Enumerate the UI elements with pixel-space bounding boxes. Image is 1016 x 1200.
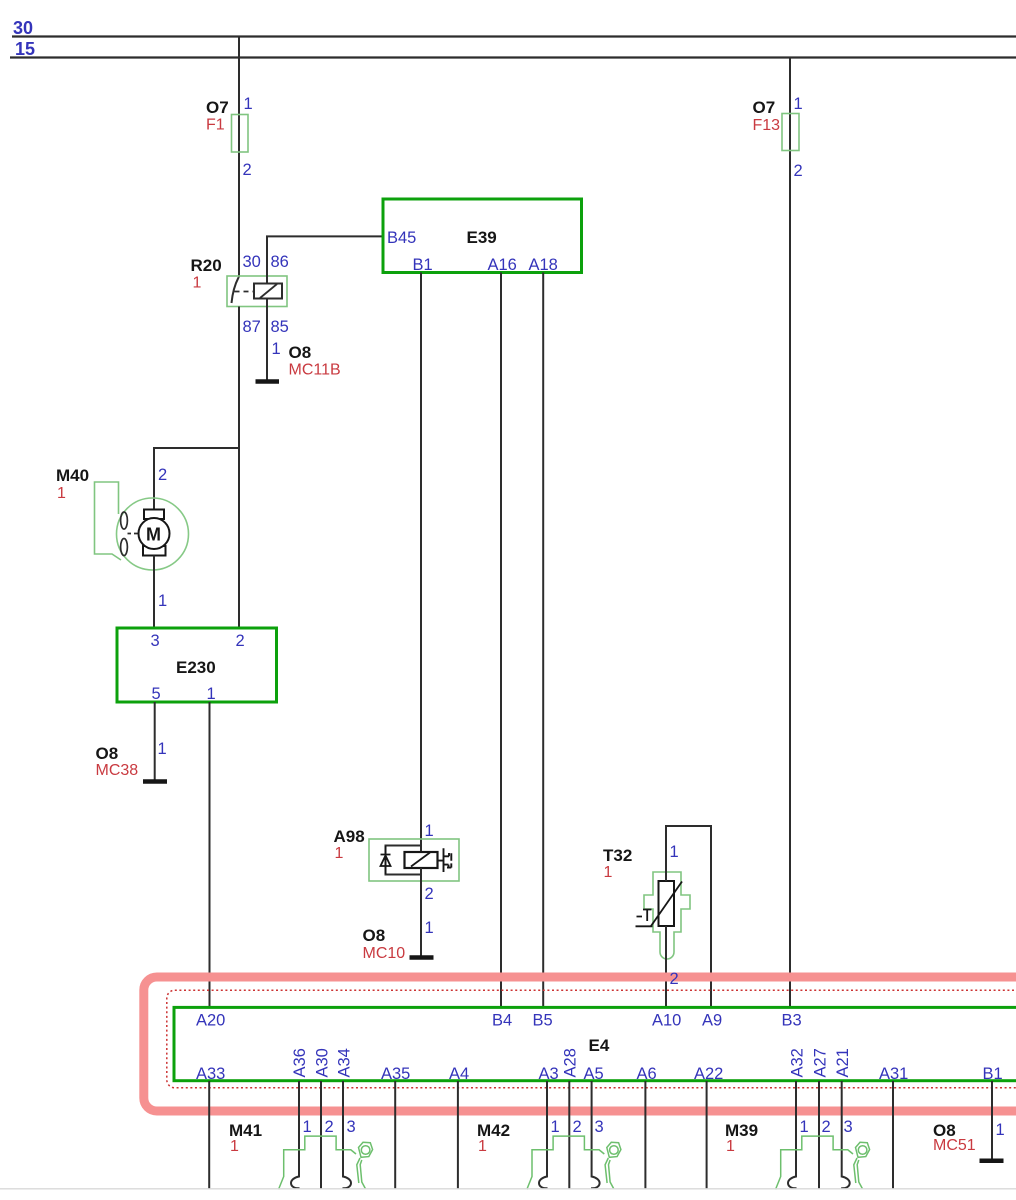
wire E4 A32 to M39 pin 1 bbox=[788, 1081, 797, 1188]
svg-text:O8: O8 bbox=[363, 926, 386, 945]
wire E4 A3 to M42 pin 1 bbox=[539, 1081, 548, 1188]
bus wire 15 bbox=[10, 56, 1016, 58]
ground O8 MC51 bbox=[933, 1121, 1004, 1161]
svg-text:2: 2 bbox=[822, 1118, 831, 1136]
relay R20 coil bbox=[254, 284, 282, 299]
svg-text:A10: A10 bbox=[652, 1012, 681, 1030]
temperature sensor T32 bbox=[603, 846, 690, 959]
svg-text:A22: A22 bbox=[694, 1065, 723, 1083]
svg-text:2: 2 bbox=[325, 1118, 334, 1136]
svg-text:3: 3 bbox=[151, 632, 160, 650]
svg-text:MC51: MC51 bbox=[933, 1137, 976, 1154]
svg-text:1: 1 bbox=[726, 1138, 735, 1155]
wire E4 A28 to M42 pin 2 bbox=[568, 1081, 570, 1190]
svg-text:A4: A4 bbox=[449, 1065, 469, 1083]
svg-text:2: 2 bbox=[425, 885, 434, 903]
svg-text:1: 1 bbox=[478, 1138, 487, 1155]
svg-text:E4: E4 bbox=[589, 1036, 610, 1055]
wire bus15 to fuse F13 and E4 B3 bbox=[789, 58, 791, 1008]
svg-text:1: 1 bbox=[335, 845, 344, 862]
svg-text:1: 1 bbox=[551, 1118, 560, 1136]
svg-text:B1: B1 bbox=[413, 256, 433, 274]
svg-text:M40: M40 bbox=[56, 466, 89, 485]
svg-text:1: 1 bbox=[996, 1121, 1005, 1139]
svg-text:85: 85 bbox=[271, 318, 289, 336]
svg-text:1: 1 bbox=[57, 485, 66, 502]
M40 housing circle bbox=[117, 498, 189, 570]
svg-text:O8: O8 bbox=[289, 343, 312, 362]
wire E4 A31 down bbox=[892, 1081, 894, 1189]
svg-text:MC10: MC10 bbox=[363, 945, 406, 962]
A98 green boundary bbox=[369, 839, 459, 881]
svg-text:30: 30 bbox=[13, 18, 33, 38]
ground O8 MC10 bbox=[363, 926, 434, 962]
svg-text:2: 2 bbox=[794, 162, 803, 180]
svg-text:A28: A28 bbox=[562, 1048, 580, 1077]
svg-text:1: 1 bbox=[794, 95, 803, 113]
svg-text:1: 1 bbox=[272, 340, 281, 358]
wire E230 pin 5 to ground MC38 bbox=[154, 702, 156, 781]
svg-text:O7: O7 bbox=[206, 98, 229, 117]
svg-text:3: 3 bbox=[844, 1118, 853, 1136]
svg-text:1: 1 bbox=[207, 685, 216, 703]
wire R20 pin 86 to E39 B45 bbox=[267, 236, 383, 283]
T32 thermistor diagonal bbox=[651, 882, 682, 927]
control unit E230 bbox=[117, 628, 277, 702]
svg-text:A9: A9 bbox=[702, 1012, 722, 1030]
wire E4 A22 down bbox=[706, 1081, 708, 1189]
relay R20 switch blade bbox=[232, 278, 239, 304]
svg-text:T32: T32 bbox=[603, 846, 632, 865]
svg-text:A98: A98 bbox=[334, 827, 365, 846]
svg-text:2: 2 bbox=[236, 632, 245, 650]
svg-text:A20: A20 bbox=[196, 1012, 225, 1030]
control unit E39 bbox=[383, 199, 582, 273]
svg-text:B4: B4 bbox=[492, 1012, 512, 1030]
svg-text:1: 1 bbox=[193, 275, 202, 292]
ground O8 MC11B bbox=[256, 343, 341, 382]
svg-text:1: 1 bbox=[425, 919, 434, 937]
svg-text:A27: A27 bbox=[811, 1048, 829, 1077]
svg-text:A21: A21 bbox=[834, 1048, 852, 1077]
svg-text:1: 1 bbox=[158, 740, 167, 758]
M40 green boundary bbox=[95, 482, 122, 560]
svg-text:3: 3 bbox=[595, 1118, 604, 1136]
svg-text:1: 1 bbox=[303, 1118, 312, 1136]
M40 brush top bbox=[144, 510, 164, 520]
valve unit A98 bbox=[334, 827, 460, 881]
svg-text:MC11B: MC11B bbox=[289, 362, 341, 379]
svg-text:30: 30 bbox=[243, 253, 261, 271]
wire junction motor M40 pin 2 branch bbox=[154, 448, 239, 510]
M40 fan blades bbox=[121, 512, 128, 529]
svg-text:F1: F1 bbox=[206, 117, 225, 134]
separator line bottom bbox=[0, 1188, 1016, 1190]
wire E39 B1 to A98 pin 1 bbox=[420, 273, 422, 853]
wire E39 A18 to E4 B5 bbox=[542, 273, 544, 1008]
wire E4 A35 down bbox=[394, 1081, 396, 1189]
svg-text:A5: A5 bbox=[584, 1065, 604, 1083]
svg-text:2: 2 bbox=[243, 161, 252, 179]
fuse O7 F13 bbox=[753, 98, 800, 151]
svg-text:A6: A6 bbox=[637, 1065, 657, 1083]
T32 thermistor body bbox=[659, 881, 675, 926]
T32 -t marking bbox=[636, 910, 653, 927]
A98 coil bbox=[405, 852, 438, 868]
wire T32 pin 2 to E4 A10 bbox=[665, 926, 667, 1007]
wire E230 pin 1 to E4 A20 bbox=[209, 702, 211, 1007]
svg-text:1: 1 bbox=[425, 822, 434, 840]
wire R20 pin 85 to ground MC11B bbox=[266, 299, 268, 381]
svg-text:A30: A30 bbox=[313, 1048, 331, 1077]
A98 inner loop wire bbox=[386, 846, 422, 875]
wire E4 B1 to ground MC51 bbox=[991, 1081, 993, 1159]
svg-text:1: 1 bbox=[244, 95, 253, 113]
wire T32 pin 1 to E4 A9 bbox=[666, 826, 711, 1007]
M42 nozzle bbox=[607, 1142, 621, 1157]
svg-text:A31: A31 bbox=[879, 1065, 908, 1083]
svg-text:A36: A36 bbox=[291, 1048, 309, 1077]
wire E4 A5 to M42 pin 3 bbox=[591, 1081, 600, 1188]
svg-text:A33: A33 bbox=[196, 1065, 225, 1083]
wire E4 A36 to M41 pin 1 bbox=[291, 1081, 300, 1188]
wire E4 A34 to M41 pin 3 bbox=[342, 1081, 351, 1188]
svg-text:E230: E230 bbox=[176, 658, 216, 677]
M42 spray arm bbox=[605, 1158, 614, 1189]
svg-text:A32: A32 bbox=[788, 1048, 806, 1077]
wire E4 A4 down bbox=[457, 1081, 459, 1189]
svg-text:M: M bbox=[146, 525, 161, 545]
A98 actuator contact symbol bbox=[438, 848, 452, 872]
svg-text:1: 1 bbox=[230, 1138, 239, 1155]
svg-text:A3: A3 bbox=[539, 1065, 559, 1083]
harness dotted boundary bbox=[167, 990, 1016, 1088]
harness highlight around E4 bbox=[144, 977, 1016, 1111]
svg-text:E39: E39 bbox=[467, 228, 497, 247]
wire R20 pin 87 to E230 pin 2 bbox=[238, 307, 240, 629]
wire E4 A33 down bbox=[208, 1081, 210, 1189]
washer pump M39 bbox=[725, 1118, 870, 1190]
relay R20 dashed actuator link bbox=[235, 291, 255, 293]
M42 green pump outline bbox=[527, 1136, 605, 1189]
T32 green boundary bbox=[644, 872, 690, 959]
wire E4 A30 to M41 pin 2 bbox=[320, 1081, 322, 1190]
M39 spray arm bbox=[854, 1158, 863, 1189]
svg-text:15: 15 bbox=[15, 39, 35, 59]
svg-text:F13: F13 bbox=[753, 117, 781, 134]
svg-text:B1: B1 bbox=[983, 1065, 1003, 1083]
M39 nozzle bbox=[856, 1142, 870, 1157]
wire E4 A21 to M39 pin 3 bbox=[841, 1081, 850, 1188]
M41 nozzle bbox=[359, 1142, 373, 1157]
svg-text:86: 86 bbox=[271, 253, 289, 271]
wire bus30 to fuse F1 and relay R20 pin 30 bbox=[238, 37, 240, 278]
washer pump M42 bbox=[477, 1118, 621, 1190]
washer pump M41 bbox=[229, 1118, 373, 1190]
motor M40 with fan bbox=[56, 466, 189, 570]
svg-text:MC38: MC38 bbox=[96, 762, 139, 779]
svg-text:87: 87 bbox=[243, 318, 261, 336]
fuse O7 F1 bbox=[206, 98, 248, 152]
M41 green pump outline bbox=[279, 1136, 357, 1189]
wire A98 pin 2 to ground MC10 bbox=[420, 868, 422, 956]
svg-text:R20: R20 bbox=[191, 256, 222, 275]
svg-text:A35: A35 bbox=[381, 1065, 410, 1083]
svg-text:1: 1 bbox=[604, 864, 613, 881]
wire E39 A16 to E4 B4 bbox=[500, 273, 502, 1008]
svg-text:2: 2 bbox=[670, 970, 679, 988]
M40 brush bottom bbox=[143, 546, 166, 556]
M40 shaft dashed link bbox=[128, 533, 140, 535]
relay R20 bbox=[191, 256, 288, 307]
svg-text:O7: O7 bbox=[753, 98, 776, 117]
M40 motor circle bbox=[139, 518, 170, 549]
wire E4 A6 down bbox=[644, 1081, 646, 1189]
svg-text:A34: A34 bbox=[336, 1048, 354, 1077]
svg-text:2: 2 bbox=[158, 466, 167, 484]
ground O8 MC38 bbox=[96, 744, 168, 782]
svg-text:B3: B3 bbox=[782, 1012, 802, 1030]
M41 spray arm bbox=[357, 1158, 366, 1189]
svg-text:1: 1 bbox=[800, 1118, 809, 1136]
control unit E4 bbox=[174, 1007, 1016, 1080]
M39 green pump outline bbox=[776, 1136, 854, 1189]
A98 suppression diode bbox=[381, 846, 391, 874]
svg-text:5: 5 bbox=[152, 685, 161, 703]
svg-text:2: 2 bbox=[573, 1118, 582, 1136]
svg-text:1: 1 bbox=[158, 592, 167, 610]
svg-text:A16: A16 bbox=[488, 256, 517, 274]
svg-text:B5: B5 bbox=[533, 1012, 553, 1030]
wire M40 pin 1 to E230 pin 3 bbox=[153, 556, 155, 629]
svg-text:A18: A18 bbox=[529, 256, 558, 274]
svg-text:B45: B45 bbox=[387, 229, 416, 247]
svg-text:O8: O8 bbox=[96, 744, 119, 763]
bus wire 30 bbox=[12, 35, 1016, 37]
wire E4 A27 to M39 pin 2 bbox=[818, 1081, 820, 1190]
svg-text:3: 3 bbox=[347, 1118, 356, 1136]
svg-text:1: 1 bbox=[670, 843, 679, 861]
